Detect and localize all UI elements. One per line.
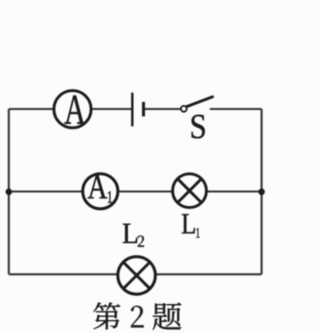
ammeter A bbox=[54, 91, 91, 128]
wire switch to right corner bbox=[210, 108, 262, 110]
wire right vertical bbox=[261, 109, 263, 274]
caption char 2 bbox=[131, 306, 144, 328]
wire top left to battery bbox=[9, 108, 133, 110]
label L1 bbox=[182, 214, 200, 237]
label S bbox=[192, 115, 205, 139]
wire battery to switch bbox=[144, 108, 181, 110]
switch S lever bbox=[187, 97, 213, 107]
ammeter A1 bbox=[83, 174, 118, 209]
wire bottom branch bbox=[9, 273, 262, 275]
lamp L1 bbox=[173, 174, 207, 208]
node junction left bbox=[6, 189, 13, 196]
battery long plate (+) bbox=[131, 93, 133, 127]
wire middle branch bbox=[9, 190, 262, 192]
switch S pivot bbox=[181, 106, 187, 112]
caption char 第 bbox=[93, 302, 120, 329]
wire left vertical bbox=[8, 109, 10, 274]
lamp L2 bbox=[118, 257, 156, 295]
label L2 bbox=[123, 224, 144, 247]
battery short plate (-) bbox=[142, 102, 145, 117]
node junction right bbox=[258, 189, 265, 196]
caption char 题 bbox=[153, 302, 182, 330]
